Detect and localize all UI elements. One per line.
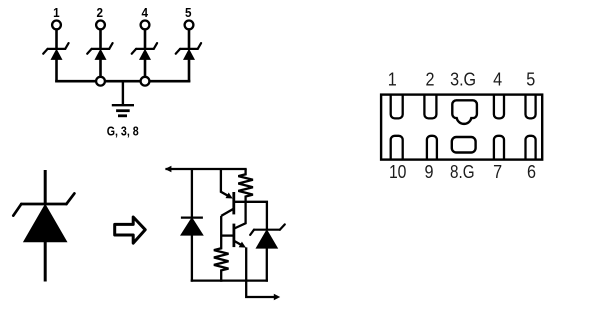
wire D4 anode to rail [188,59,191,82]
svg-text:10: 10 [389,162,407,182]
wire Q2 emitter to output pin [246,247,276,297]
common anode rail [55,80,190,83]
transistor Q2 (NPN) base bar [232,224,235,248]
svg-text:8.G: 8.G [450,162,475,182]
package pin 2 pad [424,95,436,119]
wire D5 anode to bottom rail [191,235,193,282]
package pin 10 pad [391,136,403,160]
junction node under pin 4 [141,77,150,86]
wire Q1 base node [234,202,267,230]
package pin 4 pad [494,95,504,119]
top rail wire (pin node) [166,168,247,170]
wire D1 anode to rail [55,59,58,82]
pin 4 terminal circle [141,21,150,30]
pin 2 terminal circle [96,21,105,30]
svg-text:7: 7 [493,162,502,182]
resistor R1 with node wire to Q2 collector [234,169,253,229]
bottom rail [191,279,268,281]
zener diode D2 [87,43,112,59]
package pin 8.G pad [452,137,476,153]
wire pin5 to D4 [188,30,191,49]
wire pin1 to D1 [55,30,58,49]
wire Q1 collector to Q2 base and R2 [214,216,229,282]
Q2 emitter wire [234,241,244,247]
zener diode D3 [132,43,157,59]
Q1 collector wire [221,209,234,216]
svg-text:1: 1 [53,6,60,20]
equivalence block arrow [115,217,146,243]
big zener symbol: anode wire [44,242,47,282]
wire top rail to forward diode [191,169,193,218]
package body DFN-10 [381,95,542,160]
svg-text:4: 4 [493,70,502,90]
big zener symbol: cathode wire [44,170,47,204]
big zener symbol body [13,193,74,241]
svg-text:6: 6 [527,162,536,182]
zener diode D1 [43,43,68,59]
package pin 5 pad [526,95,536,119]
svg-text:2: 2 [426,70,435,90]
zener diode D6 [250,224,285,248]
svg-text:4: 4 [141,6,148,20]
svg-text:G, 3, 8: G, 3, 8 [107,124,139,139]
wire D3 anode to rail [144,59,147,81]
wire pin4 to D3 [144,30,147,49]
ground stem wire [122,81,124,105]
zener diode D4 [176,43,201,59]
forward diode D5 [181,218,203,235]
Q2 emitter arrowhead [239,242,246,248]
package pin 9 pad [427,136,437,160]
Q1 base bar [232,192,235,214]
package pin 3.G pad [452,100,477,124]
transistor Q1 (PNP) emitter wire [221,169,231,197]
pin 5 terminal circle [185,21,194,30]
package pin 6 pad [526,136,536,160]
svg-text:3.G: 3.G [450,70,476,90]
Q2 base stub wire [221,234,234,236]
junction node under pin 2 [96,77,105,86]
output arrowhead [274,294,280,301]
package pin 1 pad [391,95,403,119]
wire D6 anode to bottom rail [266,248,268,282]
svg-text:1: 1 [388,70,397,90]
left arrowhead [165,166,172,173]
pin 1 terminal circle [52,21,61,30]
wire pin2 to D2 [99,30,102,49]
package pin 7 pad [494,136,504,160]
ground symbol [112,105,134,116]
Q1 emitter arrowhead [226,193,233,199]
svg-text:9: 9 [425,162,434,182]
svg-text:5: 5 [185,6,192,20]
wire D2 anode to rail [99,59,102,81]
svg-text:2: 2 [96,6,103,20]
svg-text:5: 5 [526,70,535,90]
